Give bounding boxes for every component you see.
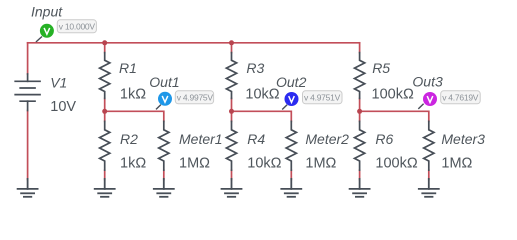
wire Meter1 to ground (163, 170, 165, 179)
probe Out3 needle (418, 104, 423, 109)
svg-text:1kΩ: 1kΩ (120, 86, 146, 102)
svg-text:R5: R5 (372, 60, 390, 76)
probe Out3 V glyph (427, 96, 433, 102)
wire R3 to node Out2 (231, 98, 233, 111)
svg-text:Out3: Out3 (412, 74, 443, 90)
value box probe Out3 (441, 91, 481, 104)
resistor Meter2 (286, 121, 296, 170)
svg-text:Meter1: Meter1 (179, 131, 223, 147)
resistor R5 (355, 53, 365, 99)
wire top horizontal net from V1 to R5 (28, 42, 360, 44)
ground under Meter3 (419, 179, 439, 197)
resistor R2 (100, 121, 110, 170)
junction dot node Out3 (357, 109, 362, 114)
svg-text:Input: Input (31, 4, 63, 20)
svg-text:v 4.7619V: v 4.7619V (442, 93, 479, 103)
wire R5 to node Out3 (359, 98, 361, 111)
svg-text:R1: R1 (119, 60, 137, 76)
svg-text:10V: 10V (50, 99, 76, 115)
svg-text:100kΩ: 100kΩ (372, 86, 414, 102)
resistor Meter1 (159, 121, 169, 170)
resistor Meter3 (424, 121, 434, 170)
probe Out1 circle (158, 92, 172, 106)
wire Meter3 to ground (428, 170, 430, 179)
probe Out2 needle (282, 105, 287, 110)
value box probe Out2 (303, 91, 343, 104)
probe Out2 circle (285, 92, 299, 106)
probe Input circle (40, 24, 54, 38)
wire R2 to ground (104, 170, 106, 179)
ground under Meter1 (154, 179, 174, 197)
junction dot top net at R3 (229, 40, 234, 45)
svg-text:v 4.9975V: v 4.9975V (177, 93, 214, 103)
svg-text:R6: R6 (375, 131, 393, 147)
resistor R3 (226, 53, 236, 99)
wire left vertical from top net down to V1 plus terminal (27, 43, 29, 74)
wire V1 minus terminal to ground (27, 111, 29, 180)
svg-text:100kΩ: 100kΩ (375, 156, 417, 172)
junction dot node Out1 (102, 109, 107, 114)
wire Out1 horizontal to Meter1 (105, 111, 164, 121)
probe Out2 V glyph (289, 96, 295, 102)
probe Input V glyph (44, 28, 50, 34)
junction dot node Out2 (229, 109, 234, 114)
value box probe Out1 (175, 91, 213, 104)
ground under R6 (350, 179, 370, 197)
svg-text:10kΩ: 10kΩ (247, 156, 281, 172)
wire node Out1 to R2 (104, 111, 106, 121)
probe Out3 circle (423, 92, 437, 106)
probe Out1 V glyph (162, 96, 168, 102)
ground under V1 (18, 179, 38, 197)
svg-text:R3: R3 (246, 60, 264, 76)
wire node Out2 to R4 (231, 111, 233, 121)
probe Input needle (36, 37, 42, 43)
resistor R1 (100, 53, 110, 99)
wire top net corner down to R5 (359, 43, 361, 53)
resistor R6 (355, 121, 365, 170)
wire stub top net to R1 (104, 43, 106, 53)
wire stub top net to R3 (231, 43, 233, 53)
svg-text:10kΩ: 10kΩ (245, 86, 279, 102)
svg-text:Meter3: Meter3 (441, 131, 485, 147)
svg-text:1kΩ: 1kΩ (120, 156, 146, 172)
wire node Out3 to R6 (359, 111, 361, 121)
svg-text:v 4.9751V: v 4.9751V (304, 93, 341, 103)
voltage source V1 battery symbol (15, 74, 40, 111)
svg-text:1MΩ: 1MΩ (441, 156, 472, 172)
value box probe Input (57, 20, 96, 33)
junction dot top net at R1 (102, 40, 107, 45)
svg-text:V1: V1 (50, 75, 67, 91)
wire R4 to ground (231, 170, 233, 179)
wire R1 to node Out1 (104, 98, 106, 111)
svg-text:1MΩ: 1MΩ (179, 156, 210, 172)
ground under Meter2 (281, 179, 301, 197)
svg-text:R4: R4 (247, 131, 265, 147)
wire R6 to ground (359, 170, 361, 179)
svg-text:1MΩ: 1MΩ (305, 156, 336, 172)
svg-text:v 10.000V: v 10.000V (59, 22, 96, 32)
wire Out3 horizontal to Meter3 (360, 111, 429, 121)
ground under R2 (95, 179, 115, 197)
svg-text:Meter2: Meter2 (305, 131, 349, 147)
wire Out2 horizontal to Meter2 (232, 111, 292, 121)
svg-text:R2: R2 (120, 131, 138, 147)
svg-text:Out1: Out1 (149, 74, 179, 90)
ground under R4 (222, 179, 242, 197)
resistor R4 (226, 121, 236, 170)
wire Meter2 to ground (290, 170, 292, 179)
probe Out1 needle (156, 105, 161, 110)
svg-text:Out2: Out2 (276, 74, 307, 90)
